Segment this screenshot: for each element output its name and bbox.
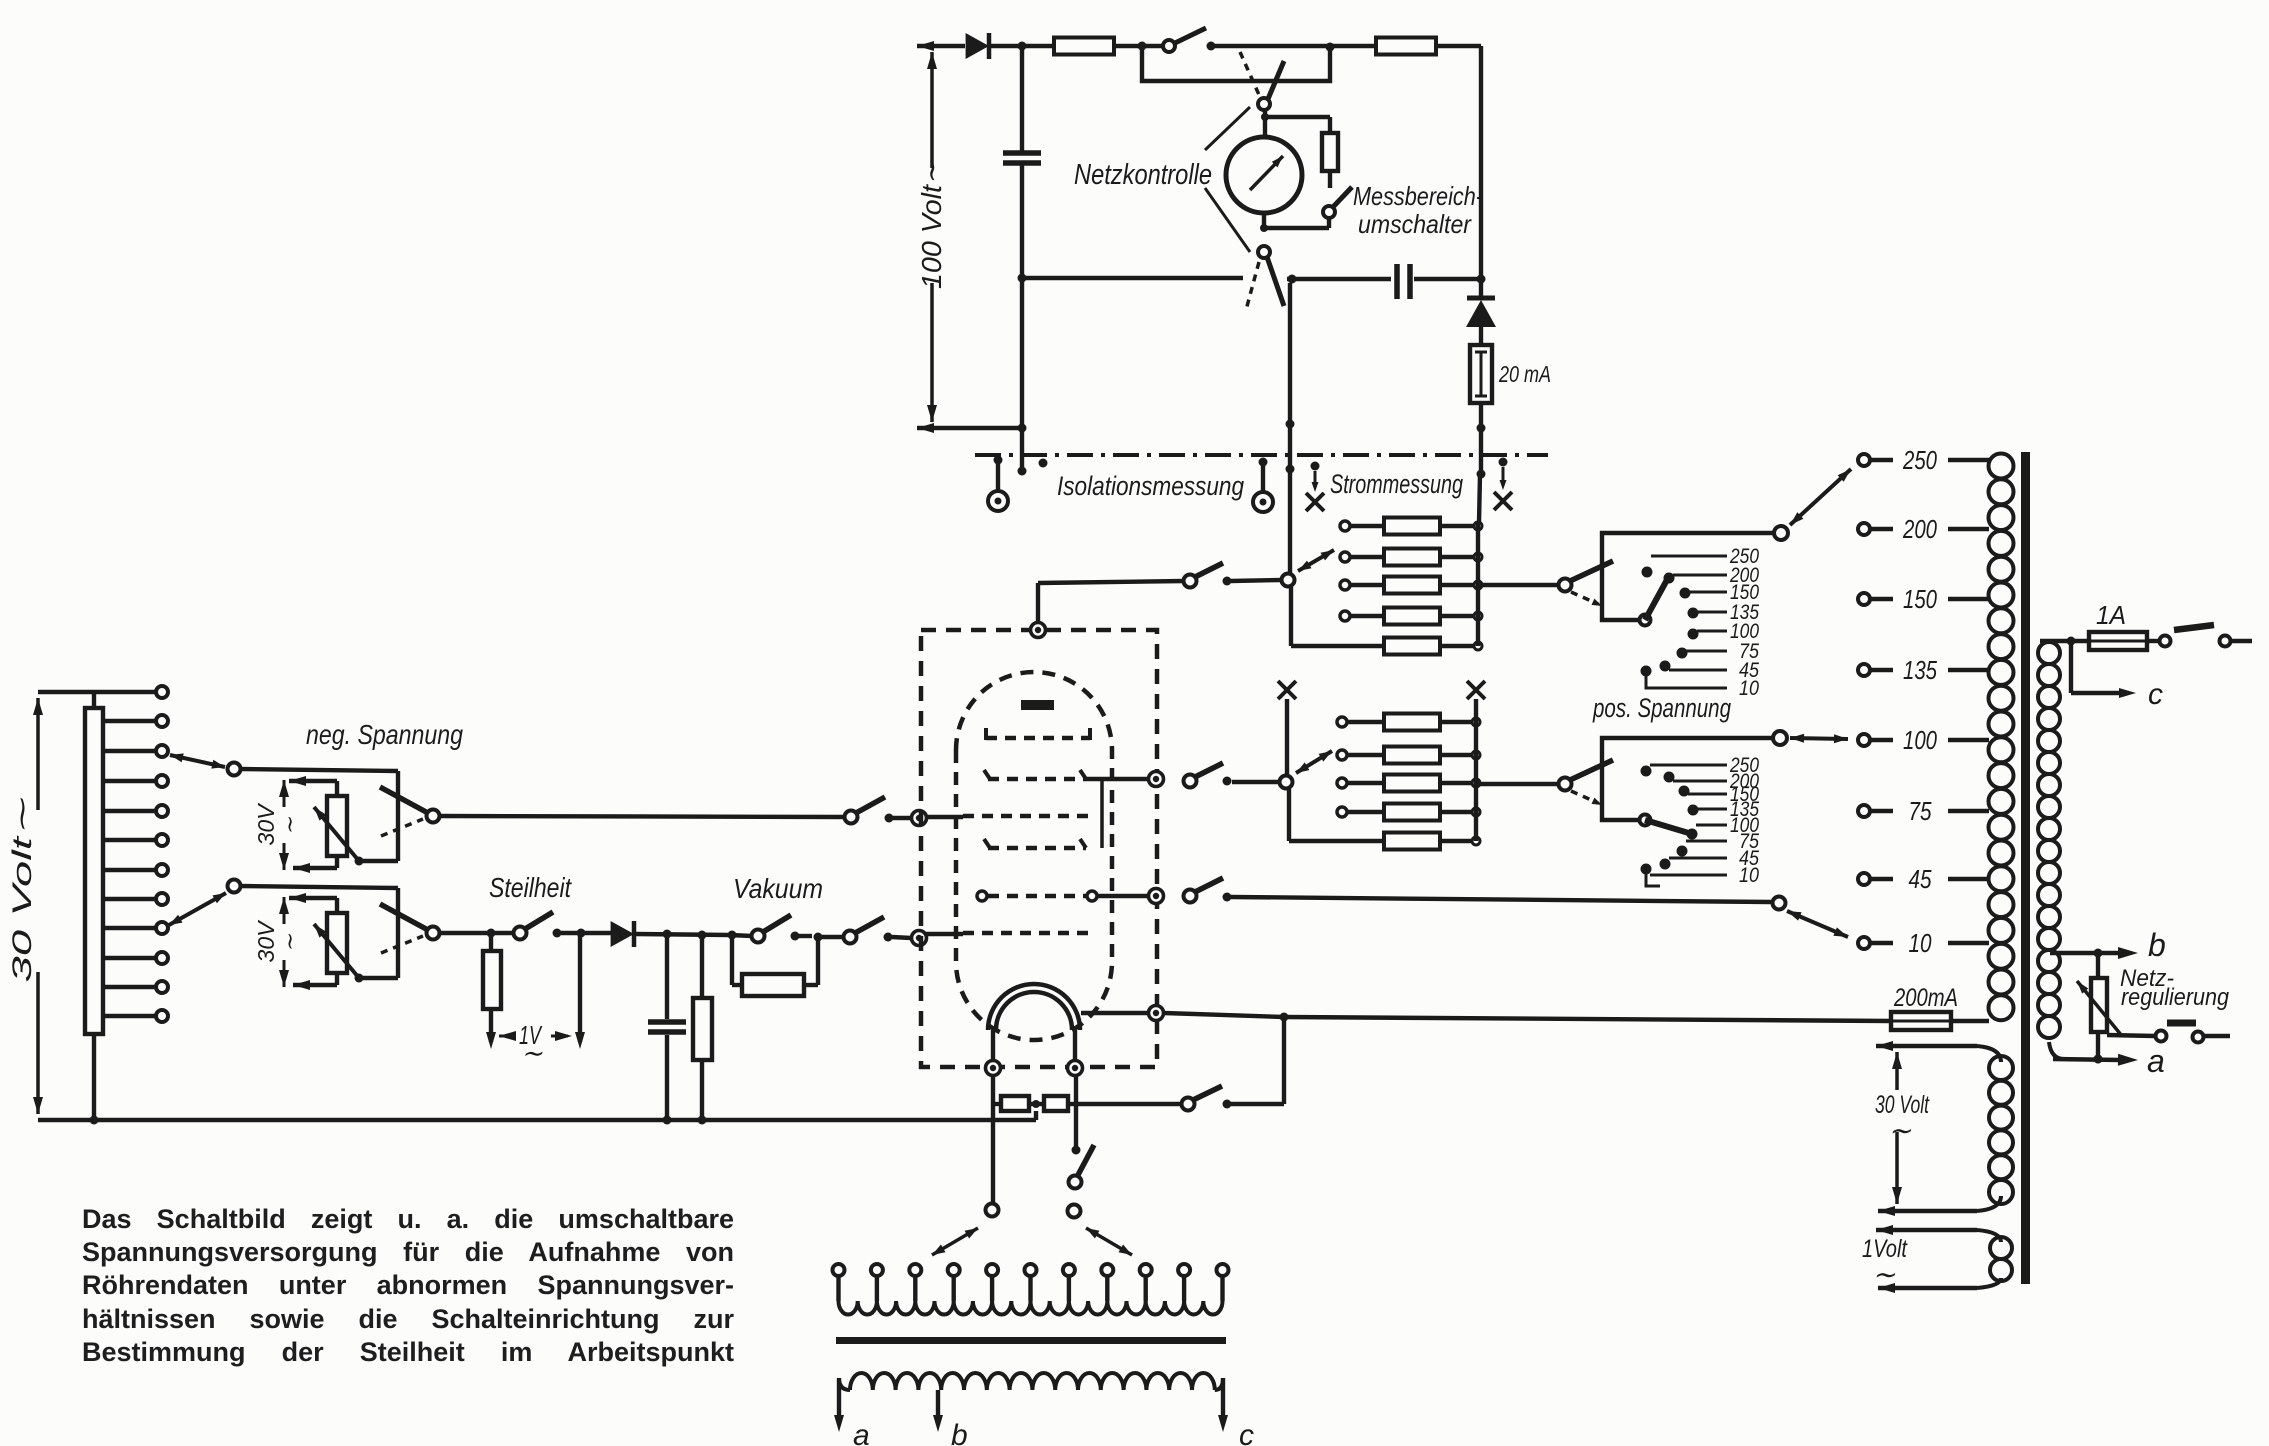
svg-text:c: c [1239,1419,1254,1446]
svg-text:1A: 1A [2096,600,2126,630]
svg-text:200mA: 200mA [1893,984,1958,1012]
svg-text:45: 45 [1909,864,1932,894]
svg-text:c: c [2148,678,2163,711]
svg-text:neg. Spannung: neg. Spannung [306,719,463,750]
svg-text:∼: ∼ [1888,1115,1912,1146]
svg-text:a: a [2147,1043,2165,1079]
svg-text:100 Volt∼: 100 Volt∼ [916,160,947,289]
svg-text:75: 75 [1909,796,1932,826]
svg-text:30V: 30V [253,919,279,963]
svg-text:Vakuum: Vakuum [733,873,823,904]
svg-text:regulierung: regulierung [2121,984,2230,1011]
svg-text:umschalter: umschalter [1358,209,1472,239]
svg-text:20 mA: 20 mA [1498,361,1551,387]
svg-text:10: 10 [1909,928,1932,958]
svg-text:250: 250 [1902,445,1937,475]
svg-text:150: 150 [1903,584,1937,614]
svg-text:Strommessung: Strommessung [1330,469,1463,499]
svg-text:30V: 30V [253,802,279,846]
svg-text:∼: ∼ [277,816,302,835]
svg-text:b: b [951,1419,968,1446]
svg-text:Messbereich-: Messbereich- [1353,181,1483,211]
svg-text:Netzkontrolle: Netzkontrolle [1074,159,1212,191]
svg-text:10: 10 [1739,677,1759,700]
svg-text:30 Volt∼: 30 Volt∼ [7,797,37,983]
svg-text:a: a [853,1419,870,1446]
svg-text:10: 10 [1739,864,1759,887]
svg-text:Isolationsmessung: Isolationsmessung [1057,471,1244,501]
svg-text:b: b [2148,927,2166,963]
svg-text:∼: ∼ [1872,1259,1896,1290]
svg-text:∼: ∼ [277,933,302,952]
svg-text:Steilheit: Steilheit [489,872,572,903]
svg-text:135: 135 [1903,655,1937,685]
svg-text:100: 100 [1903,725,1937,755]
svg-text:∼: ∼ [521,1038,543,1068]
svg-text:200: 200 [1902,514,1937,544]
svg-text:pos. Spannung: pos. Spannung [1592,693,1731,723]
